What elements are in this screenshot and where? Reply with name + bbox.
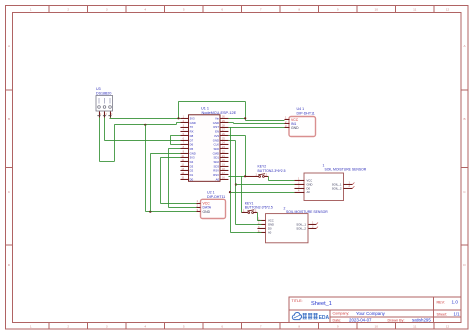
svg-text:SOIL MOISTURE SENSOR: SOIL MOISTURE SENSOR: [325, 168, 367, 172]
wire U1 3V3 pin26 down to KEY2: [228, 134, 245, 136]
svg-text:GND: GND: [307, 183, 313, 187]
svg-text:1: 1: [349, 180, 351, 184]
junction GND to sensor 1: [235, 183, 237, 185]
U1 left pins 1-15: [180, 116, 195, 182]
svg-text:Sheet_1: Sheet_1: [311, 301, 332, 307]
junction on 3V3 at U1 pin1: [177, 117, 179, 119]
svg-text:DIP-DHT11: DIP-DHT11: [297, 112, 315, 116]
title block values: [311, 300, 460, 323]
svg-text:1/1: 1/1: [454, 312, 461, 317]
svg-text:DIP-DHT11: DIP-DHT11: [207, 195, 225, 199]
wire 3V3 loop over U1 to right side: [177, 101, 179, 118]
title block labels: [292, 299, 448, 323]
svg-text:A0: A0: [216, 177, 220, 181]
svg-text:VCC: VCC: [203, 201, 211, 205]
junction GND at U2: [149, 211, 151, 213]
svg-text:D: D: [463, 263, 466, 267]
svg-text:satish295: satish295: [412, 318, 431, 323]
svg-text:A0: A0: [268, 231, 272, 235]
svg-text:U1 1: U1 1: [201, 107, 209, 111]
svg-text:8: 8: [298, 325, 300, 329]
svg-text:GND: GND: [268, 223, 274, 227]
wire U1 GND pin9 down to U2 GND: [150, 152, 180, 154]
svg-text:D0: D0: [307, 186, 311, 190]
svg-text:28: 28: [222, 124, 225, 127]
svg-text:Company:: Company:: [333, 312, 350, 316]
wire KEY1 pin1 up to A0 net: [240, 176, 242, 212]
svg-text:2023-04-07: 2023-04-07: [349, 318, 372, 323]
svg-text:TITLE:: TITLE:: [292, 299, 303, 303]
wire A0 net to sensor 2 A0: [230, 231, 261, 233]
temperature sensor U3 DS18B20: [96, 87, 113, 111]
svg-text:9: 9: [337, 8, 339, 12]
svg-text:11: 11: [413, 8, 416, 12]
sensor 2 left pins: [257, 218, 274, 235]
svg-text:6: 6: [183, 137, 185, 140]
svg-text:A0: A0: [307, 190, 311, 194]
svg-text:B: B: [8, 117, 10, 121]
EasyEDA logo: [292, 312, 329, 321]
svg-text:DS18B20: DS18B20: [96, 92, 111, 96]
svg-text:B: B: [463, 117, 465, 121]
svg-text:3: 3: [106, 8, 108, 12]
wire U1 Vin to U4 VCC: [228, 117, 245, 119]
wire U1 D8 to D6: [170, 134, 180, 136]
svg-text:9: 9: [337, 325, 339, 329]
svg-text:VCC: VCC: [307, 179, 313, 183]
svg-text:U4 1: U4 1: [297, 107, 305, 111]
svg-text:11: 11: [413, 325, 416, 329]
U1 right pins 30-16: [213, 116, 229, 182]
wire U1 3V3 pin10 to U2 VCC: [160, 156, 180, 158]
junction GND branch to U2: [144, 124, 146, 126]
svg-text:2: 2: [106, 113, 108, 116]
svg-text:EDA: EDA: [319, 315, 330, 321]
svg-text:1: 1: [30, 325, 32, 329]
svg-text:2: 2: [67, 8, 69, 12]
svg-text:A: A: [8, 44, 11, 48]
svg-text:Your Company: Your Company: [356, 311, 386, 316]
wire U1 pin28 to U4 GND and A0 net vertical: [228, 126, 284, 128]
svg-text:D0: D0: [190, 177, 194, 181]
svg-text:VCC: VCC: [268, 219, 274, 223]
svg-text:6: 6: [221, 325, 223, 329]
svg-text:U3: U3: [96, 87, 101, 91]
svg-text:SOIL_2: SOIL_2: [296, 227, 306, 231]
svg-text:1: 1: [100, 113, 102, 116]
svg-text:6: 6: [221, 8, 223, 12]
junction at Vin/3V3 loop: [244, 117, 246, 119]
svg-text:U2 1: U2 1: [207, 191, 215, 195]
svg-text:Drawn By:: Drawn By:: [388, 319, 405, 323]
svg-text:1.0: 1.0: [452, 300, 459, 305]
svg-text:3: 3: [106, 325, 108, 329]
junction A0/KEY2: [244, 175, 246, 177]
wire U1 D5 to U2 DATA: [168, 147, 180, 149]
svg-text:7: 7: [260, 325, 262, 329]
svg-text:BUTTON2-3*6*2.5: BUTTON2-3*6*2.5: [245, 206, 273, 210]
svg-text:3: 3: [183, 124, 185, 127]
wire U3 VDD to U1 pin1 3V3: [109, 117, 111, 118]
svg-text:7: 7: [260, 8, 262, 12]
wire GND to sensor 2: [235, 223, 261, 225]
svg-text:5: 5: [183, 8, 185, 12]
svg-text:4: 4: [144, 325, 146, 329]
svg-text:12: 12: [446, 8, 450, 12]
svg-text:GND: GND: [291, 126, 299, 130]
svg-text:REV:: REV:: [437, 301, 445, 305]
svg-text:25: 25: [222, 137, 225, 140]
wire U3 GND to U1 GND pin2: [98, 117, 100, 161]
sensor 2 right pins SOIL_1 SOIL_2: [296, 220, 318, 230]
svg-text:4: 4: [144, 8, 146, 12]
junction A0 net to sensor 1 A0: [229, 191, 231, 193]
wire U3 DQ to U1 D7: [103, 117, 105, 140]
svg-text:10: 10: [375, 325, 379, 329]
svg-text:4: 4: [298, 189, 300, 192]
svg-text:1: 1: [30, 8, 32, 12]
wire KEY1 to sensor 2 VCC: [256, 212, 258, 220]
svg-text:10: 10: [375, 8, 379, 12]
svg-text:D: D: [8, 263, 11, 267]
wire KEY2 to sensor 1 VCC: [267, 176, 269, 180]
frame row letters: [8, 44, 467, 267]
svg-text:8: 8: [298, 8, 300, 12]
U4 pins: [284, 116, 299, 131]
wire U1 GND pin29 to U4 IN1: [228, 121, 233, 123]
U3 pins: [97, 111, 113, 117]
svg-text:1: 1: [197, 199, 199, 203]
svg-text:1: 1: [312, 220, 314, 224]
svg-text:5: 5: [183, 325, 185, 329]
svg-text:Sheet:: Sheet:: [437, 313, 448, 317]
sensor 1 left pins: [294, 178, 312, 195]
svg-text:2: 2: [312, 224, 314, 228]
sensor 1 right pins SOIL_1 SOIL_2: [332, 180, 355, 190]
svg-text:SOIL_2: SOIL_2: [332, 186, 342, 190]
title block: [289, 297, 461, 323]
svg-text:Date:: Date:: [333, 319, 342, 323]
svg-text:12: 12: [446, 325, 450, 329]
svg-text:C: C: [463, 190, 466, 194]
svg-text:A: A: [463, 44, 466, 48]
svg-text:BUTTON2-3*6*2.5: BUTTON2-3*6*2.5: [258, 169, 286, 173]
svg-text:GND: GND: [203, 210, 211, 214]
svg-text:C: C: [8, 190, 11, 194]
wire U1 A0 pin16 to buttons: [228, 175, 245, 177]
svg-text:D0: D0: [268, 227, 272, 231]
svg-text:2: 2: [67, 325, 69, 329]
wire U1 GND pin25 down to sensors GND: [228, 139, 235, 141]
svg-text:3: 3: [111, 113, 113, 116]
U2 pins: [196, 199, 211, 214]
